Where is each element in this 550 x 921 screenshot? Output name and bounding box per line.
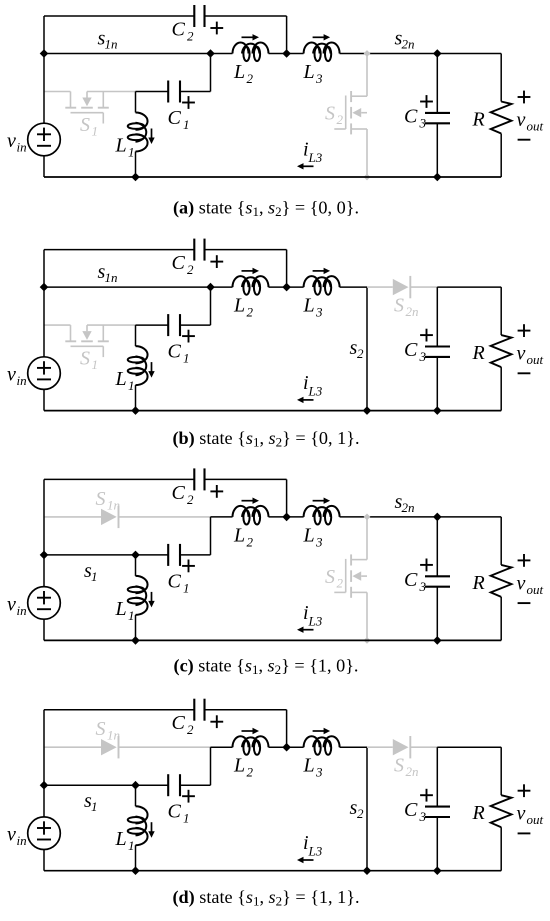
svg-text:L: L — [303, 755, 315, 777]
resistor R (a) — [491, 54, 512, 178]
label L1 (c) — [115, 598, 135, 623]
wire: J1 to L2 (d) — [211, 746, 233, 748]
svg-text:C: C — [172, 252, 186, 274]
svg-text:1n: 1n — [105, 37, 118, 52]
svg-text:C: C — [172, 482, 186, 504]
inductor L3 (b) — [304, 276, 340, 287]
label s_2 (d) — [350, 797, 365, 821]
svg-text:C: C — [168, 341, 182, 363]
svg-text:3: 3 — [419, 349, 427, 364]
label S_2 (a) — [325, 103, 344, 128]
label i_L3 (d) — [303, 832, 323, 859]
label S_1 (a) — [80, 114, 98, 139]
node: s2n-C3 junction (c) — [433, 513, 442, 522]
wire: C2 to corner node (a) — [205, 15, 287, 17]
voltage source v_in (a) — [28, 123, 61, 156]
svg-text:out: out — [527, 582, 544, 597]
node: L1-bottom junction (c) — [131, 636, 140, 645]
capacitor C3 (c) — [420, 517, 450, 641]
label C3 (c) — [404, 569, 427, 594]
svg-text:2: 2 — [357, 346, 364, 361]
svg-text:C: C — [404, 569, 418, 591]
svg-text:1: 1 — [183, 117, 190, 132]
wire: top left to C2 (d) — [44, 709, 194, 711]
svg-text:1: 1 — [91, 569, 98, 584]
svg-text:out: out — [527, 352, 544, 367]
capacitor C1 (a) — [136, 81, 211, 109]
svg-text:C: C — [404, 339, 418, 361]
capacitor C3 (d) — [420, 747, 450, 871]
node: C3-bottom junction (c) — [433, 636, 442, 645]
svg-text:1: 1 — [128, 145, 135, 160]
svg-text:3: 3 — [315, 305, 323, 320]
inductor L1 (c) — [136, 576, 148, 615]
label v_out (b) — [517, 343, 544, 368]
svg-text:2: 2 — [337, 575, 344, 590]
wire: bottom rail (b) — [44, 410, 501, 412]
polarity marks v_out (a) — [518, 91, 531, 140]
svg-text:3: 3 — [419, 579, 427, 594]
svg-text:R: R — [472, 572, 485, 594]
diode S2n (off) (d) — [367, 736, 437, 758]
svg-text:L: L — [115, 368, 127, 390]
svg-text:L: L — [303, 524, 315, 546]
node: rail-s1n junction (b) — [40, 283, 49, 292]
wire: top left to C2 (c) — [44, 478, 194, 480]
label S_2n (b) — [394, 295, 419, 320]
svg-text:L: L — [303, 295, 315, 317]
wire: J1 down to C1 level (a) — [210, 54, 212, 92]
wire: left rail top (c) — [43, 479, 45, 586]
wire: S1 to L1 node corner (b) — [135, 324, 137, 326]
node: rail-s1 junction (c) — [40, 551, 49, 560]
svg-text:1: 1 — [92, 357, 99, 372]
resistor R (d) — [491, 747, 512, 871]
svg-text:C: C — [168, 570, 182, 592]
svg-text:2: 2 — [357, 806, 364, 821]
resistor R (b) — [491, 287, 512, 411]
svg-text:v: v — [7, 593, 16, 615]
svg-text:1n: 1n — [107, 497, 120, 512]
voltage source v_in (b) — [28, 357, 61, 390]
resistor R (c) — [491, 517, 512, 641]
capacitor C1 (d) — [136, 774, 211, 802]
label v_in (a) — [7, 130, 27, 155]
label s_1n (b) — [98, 261, 118, 285]
label C1 (c) — [168, 570, 190, 595]
label L3 (d) — [303, 755, 324, 780]
capacitor C2 (d) — [194, 699, 223, 728]
node: C3-bottom junction (a) — [433, 173, 442, 182]
wire: s2n net (c) — [340, 516, 502, 518]
inductor L2 (c) — [233, 506, 269, 517]
wire: s1n net (b) — [44, 286, 211, 288]
svg-text:1: 1 — [128, 608, 135, 623]
svg-text:v: v — [7, 364, 16, 386]
svg-text:C: C — [404, 799, 418, 821]
wire: J1 to L2 (b) — [211, 286, 233, 288]
wire: left rail bottom (d) — [43, 850, 45, 871]
node: s1n-C1 junction (a) — [206, 49, 215, 58]
inductor L2 (d) — [233, 736, 269, 747]
label L2 (b) — [233, 295, 254, 320]
wire: C2 to corner node (d) — [205, 709, 287, 711]
label L2 (d) — [233, 755, 254, 780]
wire: left rail top (a) — [43, 16, 45, 123]
label s_1n (a) — [98, 28, 118, 52]
wire: left rail bottom (c) — [43, 619, 45, 640]
node: L1-bottom junction (b) — [131, 406, 140, 415]
capacitor C2 (b) — [194, 239, 223, 268]
svg-text:2n: 2n — [402, 37, 415, 52]
polarity marks v_out (c) — [518, 554, 531, 603]
label i_L3 (c) — [303, 602, 323, 629]
arrow: L1 current (a) — [148, 129, 154, 145]
wire: J1 down to C1 level (c) — [210, 517, 212, 555]
wire: s1 net (c) — [44, 554, 136, 556]
svg-text:1: 1 — [183, 811, 190, 826]
wire: s2n to C3 corner (d) — [437, 746, 501, 748]
svg-text:R: R — [472, 802, 485, 824]
svg-text:C: C — [404, 106, 418, 128]
node: s2-bottom junction (d) — [363, 866, 372, 875]
svg-text:L3: L3 — [308, 844, 323, 859]
label S_1n (d) — [96, 718, 121, 743]
wire: L1 top lead (a) — [135, 92, 137, 113]
svg-text:2n: 2n — [402, 500, 415, 515]
arrow: i_L3 direction (d) — [297, 857, 314, 863]
wire: L3 to s2 corner (d) — [340, 746, 367, 748]
wire: L1 top lead (c) — [135, 555, 137, 576]
svg-text:(a) state {s1, s2} = {0, 0}.: (a) state {s1, s2} = {0, 0}. — [173, 198, 359, 220]
inductor L2 (a) — [233, 43, 269, 54]
label L3 (b) — [303, 295, 324, 320]
wire: left rail bottom (b) — [43, 389, 45, 410]
label C3 (b) — [404, 339, 427, 364]
label L3 (a) — [303, 61, 324, 86]
svg-text:v: v — [517, 109, 526, 131]
svg-text:C: C — [168, 107, 182, 129]
label v_in (b) — [7, 364, 27, 389]
wire: left rail top (b) — [43, 250, 45, 357]
svg-text:C: C — [172, 19, 186, 41]
capacitor C3 (b) — [420, 287, 450, 411]
wire: L2 to L3 (c) — [269, 516, 304, 518]
label C2 (a) — [172, 19, 195, 44]
svg-text:v: v — [517, 572, 526, 594]
svg-text:R: R — [472, 109, 485, 131]
arrow: L2 current (c) — [242, 498, 260, 504]
diode S1n (off) (c) — [44, 506, 211, 528]
label C1 (b) — [168, 341, 190, 366]
svg-text:2: 2 — [247, 765, 254, 780]
label S_1n (c) — [96, 488, 121, 513]
wire: J1 down to C1 level (b) — [210, 287, 212, 325]
arrow: i_L3 direction (c) — [297, 627, 314, 633]
node: s1-L1 junction (c) — [131, 551, 140, 560]
wire: bottom rail (a) — [44, 176, 501, 178]
label C1 (a) — [168, 107, 190, 132]
wire: top left to C2 (a) — [44, 15, 194, 17]
svg-text:S: S — [325, 566, 335, 588]
svg-text:1: 1 — [128, 838, 135, 853]
label v_out (c) — [517, 572, 544, 597]
svg-text:in: in — [17, 833, 27, 848]
wire: bottom rail (d) — [44, 870, 501, 872]
wire: s2n net (a) — [340, 53, 502, 55]
svg-text:2n: 2n — [406, 764, 419, 779]
svg-text:v: v — [517, 343, 526, 365]
svg-text:L: L — [233, 755, 245, 777]
wire: bottom rail (c) — [44, 639, 501, 641]
svg-text:v: v — [517, 803, 526, 825]
inductor L3 (a) — [304, 43, 340, 54]
svg-text:3: 3 — [315, 71, 323, 86]
label L1 (a) — [115, 135, 135, 160]
label L2 (a) — [233, 61, 254, 86]
svg-text:v: v — [7, 824, 16, 846]
svg-text:L3: L3 — [308, 150, 323, 165]
svg-text:L: L — [115, 828, 127, 850]
svg-text:(d) state {s1, s2} = {1, 1}.: (d) state {s1, s2} = {1, 1}. — [172, 887, 359, 909]
svg-text:in: in — [17, 373, 27, 388]
wire: s1 net (d) — [44, 784, 136, 786]
wire: L2 to L3 (a) — [269, 53, 304, 55]
wire: L1 bottom lead (b) — [135, 385, 137, 411]
transistor S1 (off) (a) — [44, 92, 136, 124]
label L2 (c) — [233, 524, 254, 549]
arrow: i_L3 direction (a) — [297, 163, 314, 169]
svg-text:L: L — [115, 598, 127, 620]
wire: J1 to L2 (a) — [211, 53, 233, 55]
label s_2 (b) — [350, 337, 365, 361]
inductor L1 (a) — [136, 113, 148, 152]
arrow: L3 current (d) — [313, 728, 331, 734]
node: rail-s1 junction (d) — [40, 781, 49, 790]
wire: s2 net vertical (b) — [366, 287, 368, 411]
label L3 (c) — [303, 524, 324, 549]
svg-text:C: C — [168, 801, 182, 823]
node: C3-bottom junction (d) — [433, 866, 442, 875]
inductor L1 (d) — [136, 806, 148, 845]
svg-text:S: S — [96, 718, 106, 740]
wire: top left to C2 (b) — [44, 249, 194, 251]
label S_1 (b) — [80, 348, 98, 373]
node: s2-bottom junction (b) — [363, 406, 372, 415]
node: L2-L3 junction (d) — [282, 743, 291, 752]
diode S1n (off) (d) — [44, 736, 211, 758]
inductor L3 (d) — [304, 736, 340, 747]
wire: s2 net vertical (d) — [366, 747, 368, 871]
polarity marks v_out (d) — [518, 784, 531, 833]
svg-text:3: 3 — [315, 765, 323, 780]
capacitor C2 (c) — [194, 468, 223, 497]
arrow: L3 current (c) — [313, 498, 331, 504]
svg-text:C: C — [172, 712, 186, 734]
svg-text:S: S — [80, 114, 90, 136]
svg-text:2: 2 — [187, 262, 194, 277]
node: s2n-C3 junction (a) — [433, 49, 442, 58]
wire: s1n net (a) — [44, 53, 211, 55]
svg-text:1: 1 — [128, 378, 135, 393]
svg-text:S: S — [96, 488, 106, 510]
node: L2-L3 junction (a) — [282, 49, 291, 58]
transistor S1 (off) (b) — [44, 325, 136, 357]
wire: left rail bottom (a) — [43, 156, 45, 177]
label C3 (a) — [404, 106, 427, 131]
svg-text:S: S — [394, 755, 404, 777]
svg-text:S: S — [394, 295, 404, 317]
svg-text:out: out — [527, 812, 544, 827]
svg-text:v: v — [7, 130, 16, 152]
svg-text:in: in — [17, 603, 27, 618]
wire: L1 top lead (b) — [135, 325, 137, 346]
arrow: L2 current (d) — [242, 728, 260, 734]
svg-text:1n: 1n — [105, 270, 118, 285]
label L1 (b) — [115, 368, 135, 393]
svg-text:1n: 1n — [107, 728, 120, 743]
node: L2-L3 junction (c) — [282, 513, 291, 522]
svg-text:3: 3 — [419, 809, 427, 824]
label v_in (d) — [7, 824, 27, 849]
svg-text:R: R — [472, 342, 485, 364]
arrow: L3 current (b) — [313, 268, 331, 274]
voltage source v_in (c) — [28, 587, 61, 620]
svg-text:2: 2 — [187, 492, 194, 507]
inductor L1 (b) — [136, 346, 148, 385]
transistor S2 (off) (c) — [334, 514, 370, 644]
node: rail-s1n junction (a) — [40, 49, 49, 58]
svg-text:L: L — [115, 135, 127, 157]
arrow: L1 current (c) — [148, 592, 154, 608]
capacitor C2 (a) — [194, 5, 223, 34]
wire: L1 bottom lead (a) — [135, 152, 137, 178]
wire: L3 to s2 corner (b) — [340, 286, 367, 288]
label L1 (d) — [115, 828, 135, 853]
svg-text:L: L — [303, 61, 315, 83]
wire: L1 top lead (d) — [135, 785, 137, 806]
capacitor C1 (c) — [136, 544, 211, 572]
svg-text:L3: L3 — [308, 384, 323, 399]
node: L1-bottom junction (a) — [131, 173, 140, 182]
label S_2 (c) — [325, 566, 344, 591]
voltage source v_in (d) — [28, 817, 61, 850]
svg-text:L: L — [233, 295, 245, 317]
label v_out (a) — [517, 109, 544, 134]
node: L1-bottom junction (d) — [131, 866, 140, 875]
svg-text:2: 2 — [247, 534, 254, 549]
arrow: L3 current (a) — [313, 34, 331, 40]
svg-text:2: 2 — [247, 305, 254, 320]
svg-text:S: S — [325, 103, 335, 125]
svg-text:2n: 2n — [406, 304, 419, 319]
wire: L1 bottom lead (c) — [135, 615, 137, 641]
arrow: i_L3 direction (b) — [297, 397, 314, 403]
label C1 (d) — [168, 801, 190, 826]
node: C3-bottom junction (b) — [433, 406, 442, 415]
arrow: L1 current (b) — [148, 362, 154, 378]
label i_L3 (b) — [303, 372, 323, 399]
svg-text:L: L — [233, 61, 245, 83]
label s_2n (a) — [395, 28, 415, 52]
node: s1-L1 junction (d) — [131, 781, 140, 790]
svg-text:out: out — [527, 119, 544, 134]
label v_out (d) — [517, 803, 544, 828]
svg-text:1: 1 — [183, 580, 190, 595]
svg-text:L3: L3 — [308, 613, 323, 628]
label C2 (c) — [172, 482, 195, 507]
svg-text:(c) state {s1, s2} = {1, 0}.: (c) state {s1, s2} = {1, 0}. — [174, 656, 359, 678]
wire: L2 to L3 (d) — [269, 746, 304, 748]
label C2 (b) — [172, 252, 195, 277]
inductor L3 (c) — [304, 506, 340, 517]
wire: L1 bottom lead (d) — [135, 845, 137, 871]
label S_2n (d) — [394, 755, 419, 780]
wire: L2 to L3 (b) — [269, 286, 304, 288]
svg-text:3: 3 — [315, 534, 323, 549]
svg-text:in: in — [17, 140, 27, 155]
svg-text:3: 3 — [419, 116, 427, 131]
svg-text:1: 1 — [92, 124, 99, 139]
wire: s2n to C3 corner (b) — [437, 286, 501, 288]
label i_L3 (a) — [303, 139, 323, 166]
inductor L2 (b) — [233, 276, 269, 287]
wire: S1 to L1 node corner (a) — [135, 91, 137, 93]
transistor S2 (off) (a) — [334, 50, 370, 180]
label s_1 (d) — [84, 790, 98, 814]
label s_1 (c) — [84, 560, 98, 584]
arrow: L2 current (b) — [242, 268, 260, 274]
arrow: L1 current (d) — [148, 822, 154, 838]
wire: C2 to corner node (b) — [205, 249, 287, 251]
capacitor C1 (b) — [136, 314, 211, 342]
label C3 (d) — [404, 799, 427, 824]
diode S2n (off) (b) — [367, 276, 437, 298]
svg-text:L: L — [233, 524, 245, 546]
svg-text:1: 1 — [91, 799, 98, 814]
wire: C2 to corner node (c) — [205, 478, 287, 480]
svg-text:2: 2 — [187, 722, 194, 737]
wire: left rail top (d) — [43, 710, 45, 817]
arrow: L2 current (a) — [242, 34, 260, 40]
node: L2-L3 junction (b) — [282, 283, 291, 292]
wire: J1 down to C1 level (d) — [210, 747, 212, 785]
svg-text:S: S — [80, 348, 90, 370]
svg-text:2: 2 — [337, 112, 344, 127]
label v_in (c) — [7, 593, 27, 618]
polarity marks v_out (b) — [518, 324, 531, 373]
wire: J1 to L2 (c) — [211, 516, 233, 518]
label C2 (d) — [172, 712, 195, 737]
node: s1n-C1 junction (b) — [206, 283, 215, 292]
svg-text:1: 1 — [183, 351, 190, 366]
svg-text:2: 2 — [247, 71, 254, 86]
svg-text:2: 2 — [187, 29, 194, 44]
label s_2n (c) — [395, 491, 415, 515]
svg-text:(b) state {s1, s2} = {0, 1}.: (b) state {s1, s2} = {0, 1}. — [172, 428, 359, 450]
capacitor C3 (a) — [420, 54, 450, 178]
